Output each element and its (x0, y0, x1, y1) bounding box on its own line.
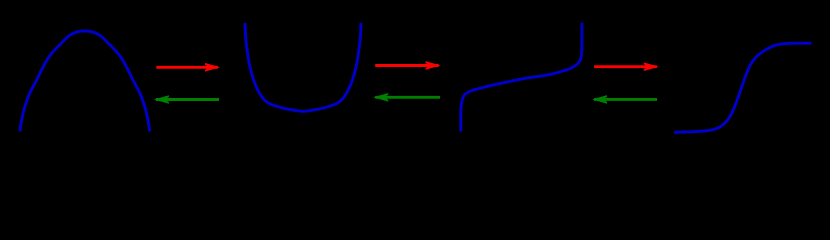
curve 1: dome hump (semicircle-like density) (20, 31, 150, 132)
red arrow 3 (rightward) (594, 62, 659, 71)
red arrow 2 (rightward) (375, 61, 440, 70)
curve 4: sigmoid (674, 43, 812, 132)
green arrow 2 (leftward) (373, 93, 440, 102)
curve 3: logit-like S-curve (461, 23, 582, 132)
red arrow 1 (rightward) (156, 63, 220, 72)
green arrow 3 (leftward) (592, 95, 657, 104)
curve 2: U-shaped well (arcsine-like density) (245, 23, 361, 112)
green arrow 1 (leftward) (154, 95, 219, 104)
